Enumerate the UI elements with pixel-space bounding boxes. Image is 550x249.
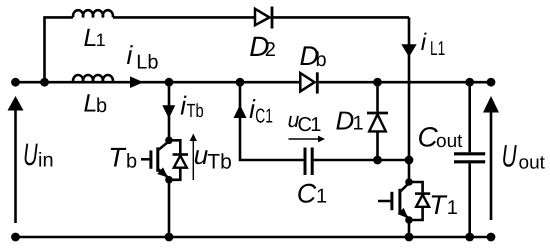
svg-text:out: out <box>519 153 546 174</box>
svg-text:1: 1 <box>310 114 321 136</box>
svg-text:Lb: Lb <box>136 52 158 74</box>
svg-text:i: i <box>127 40 134 70</box>
svg-text:T: T <box>429 190 448 220</box>
svg-text:Tb: Tb <box>207 151 232 174</box>
svg-text:in: in <box>38 150 54 172</box>
svg-text:b: b <box>96 95 107 117</box>
svg-text:Tb: Tb <box>187 101 204 122</box>
svg-text:D: D <box>336 106 355 136</box>
svg-text:b: b <box>126 150 137 172</box>
svg-text:U: U <box>502 138 517 173</box>
svg-text:out: out <box>436 131 463 152</box>
svg-text:u: u <box>194 140 208 170</box>
svg-text:T: T <box>108 142 127 172</box>
svg-text:1: 1 <box>316 186 327 208</box>
svg-text:U: U <box>23 137 38 172</box>
svg-text:1: 1 <box>353 113 364 135</box>
svg-text:i: i <box>421 29 427 56</box>
svg-text:1: 1 <box>447 197 458 219</box>
svg-text:2: 2 <box>265 39 276 61</box>
svg-text:L1: L1 <box>430 38 445 60</box>
svg-text:1: 1 <box>96 30 106 50</box>
svg-text:C1: C1 <box>255 105 273 127</box>
svg-text:C: C <box>297 179 317 209</box>
svg-text:b: b <box>316 49 327 71</box>
